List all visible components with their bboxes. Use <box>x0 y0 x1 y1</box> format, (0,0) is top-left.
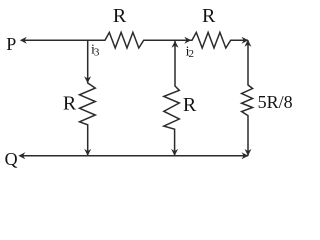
svg-text:3: 3 <box>94 46 100 58</box>
svg-text:Q: Q <box>5 149 18 169</box>
svg-text:R: R <box>63 92 77 114</box>
svg-text:R: R <box>183 94 197 116</box>
svg-text:R: R <box>113 5 127 27</box>
svg-text:5R/8: 5R/8 <box>258 92 293 112</box>
svg-text:R: R <box>202 5 216 27</box>
svg-text:P: P <box>6 34 16 54</box>
svg-text:2: 2 <box>189 48 195 60</box>
